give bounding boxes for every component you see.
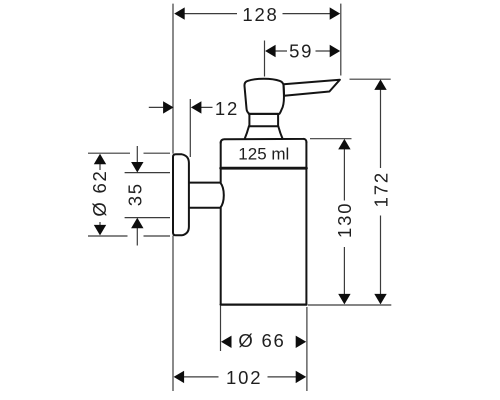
extension lines dia62 top xyxy=(88,152,170,154)
wall plate xyxy=(173,154,189,235)
extension line total height top xyxy=(350,78,391,80)
arrow dia66 left xyxy=(221,336,232,348)
svg-text:Ø 66: Ø 66 xyxy=(238,330,285,351)
pump collar xyxy=(249,114,279,126)
arrow 35 top (down) xyxy=(131,162,143,173)
arrow dia62 top (up) xyxy=(94,154,106,165)
dimension 12 tails xyxy=(149,106,213,108)
svg-text:125 ml: 125 ml xyxy=(238,145,289,164)
arrow dia66 right xyxy=(296,336,307,348)
arrow 128 left xyxy=(174,7,185,19)
extension line right of spout (128/59 right boundary) xyxy=(340,4,342,76)
bottle bottom edge xyxy=(221,303,307,305)
arrow 59 right xyxy=(330,45,341,57)
extension line 12 right xyxy=(189,99,191,157)
extension line bottom xyxy=(308,304,391,306)
extension line bottle top right xyxy=(310,138,352,140)
extension line right vertical xyxy=(306,307,308,391)
svg-text:Ø 62: Ø 62 xyxy=(89,169,110,216)
extension line dia66 left xyxy=(220,306,222,351)
arrow 172 bottom (down) xyxy=(374,294,386,305)
arrow 102 right xyxy=(296,371,307,383)
svg-text:130: 130 xyxy=(334,202,355,238)
dimension 102 tails xyxy=(184,376,296,378)
arrow dia62 bottom (down) xyxy=(94,225,106,236)
spout lever xyxy=(284,80,340,96)
arrow 172 top (up) xyxy=(374,79,386,90)
dimension 35 tails xyxy=(136,146,138,246)
holder arm xyxy=(190,183,224,208)
bottle right edge xyxy=(305,142,307,305)
arrow 59 left xyxy=(265,45,276,57)
arrow 102 left xyxy=(174,371,185,383)
svg-text:59: 59 xyxy=(289,40,313,61)
svg-text:102: 102 xyxy=(226,367,262,388)
svg-text:172: 172 xyxy=(370,171,391,207)
bottle top edge xyxy=(221,139,307,143)
dimension 172 line xyxy=(380,90,382,295)
pump head xyxy=(244,79,283,114)
arrow 130 bottom (down) xyxy=(338,294,350,305)
dimension 128 line xyxy=(184,13,330,15)
extension lines 35 xyxy=(125,173,170,218)
extension line 59 left xyxy=(264,41,266,77)
arrow 35 bottom (up) xyxy=(131,218,143,229)
extension lines dia62 bottom xyxy=(88,235,170,237)
svg-text:12: 12 xyxy=(215,98,239,119)
wall line xyxy=(172,4,174,391)
bottle left edge xyxy=(220,142,222,305)
svg-text:35: 35 xyxy=(124,182,145,206)
arrow 130 top (up) xyxy=(338,139,350,150)
arrow 12 right (points left) xyxy=(191,101,202,113)
arrow 12 left (points right) xyxy=(163,101,174,113)
pump flare xyxy=(245,126,283,139)
svg-text:128: 128 xyxy=(242,4,278,25)
bottle band separator xyxy=(221,167,307,170)
dia62 dimension connectors xyxy=(99,163,101,226)
dimension 59 line xyxy=(275,50,331,52)
arrow 128 right xyxy=(330,7,341,19)
dimension 130 line xyxy=(343,149,345,295)
